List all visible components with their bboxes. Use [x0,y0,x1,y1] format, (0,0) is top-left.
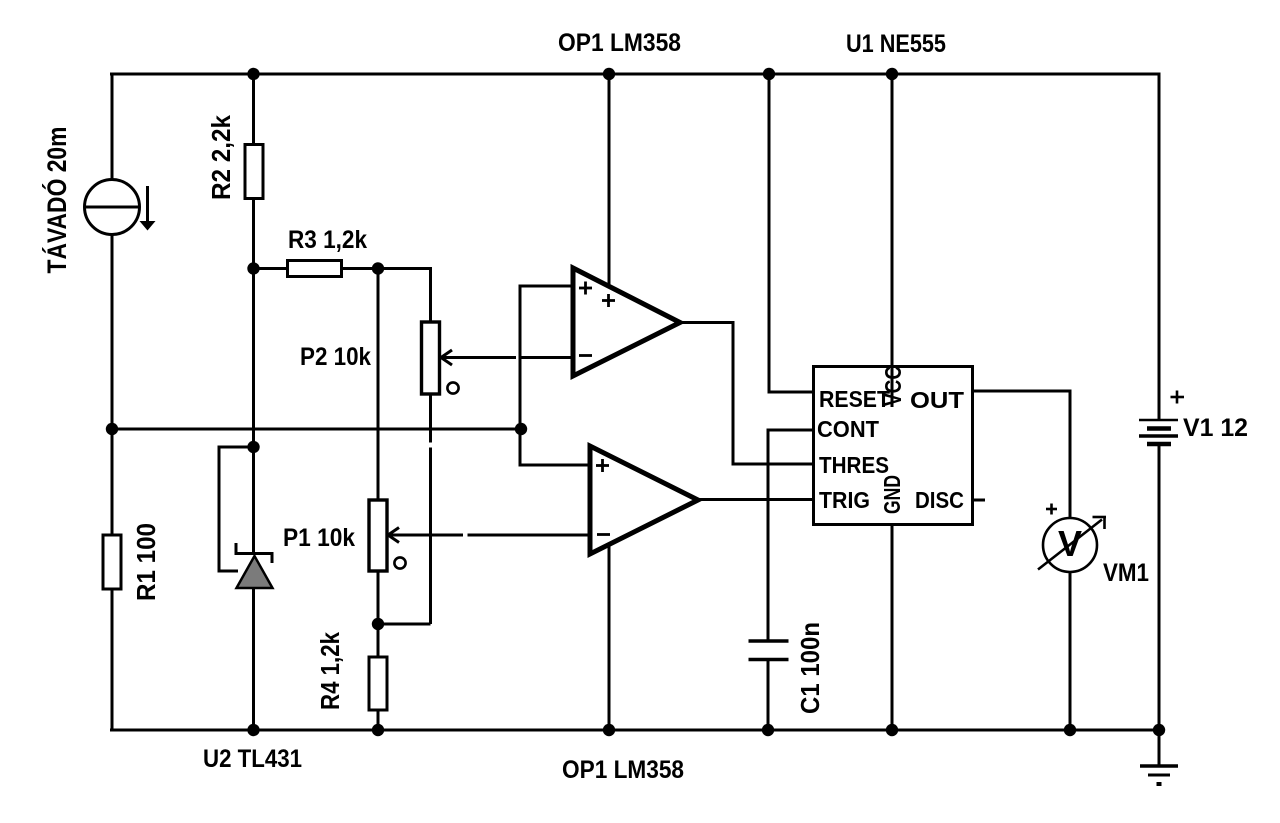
TL431 U2 reference wire [219,447,254,571]
node R3 P2 P1 [372,262,384,274]
node opamp supply bottom rail [603,724,615,736]
svg-text:C1 100n: C1 100n [795,622,825,714]
wire op-amp1 noninverting input [520,286,590,465]
op-amp1 minus input marker [579,354,592,357]
svg-text:GND: GND [879,475,905,514]
wire P1 bottom [377,571,380,657]
node C1 bottom rail [762,724,774,736]
ground symbol [1140,730,1178,784]
wire OUT pin to voltmeter [972,391,1070,518]
wire node to P2 top [378,269,431,323]
potentiometer P1 [369,500,387,571]
node mid rail right [515,423,527,435]
wire R1 top is left rail middle; resistor R1 [103,535,121,589]
node GND bottom rail [886,724,898,736]
wire right rail lower [1158,445,1161,730]
IC U1 NE555 box [814,367,973,525]
wire TL431 anode to bottom rail [252,588,255,732]
wire P2 bottom lower segment [429,448,432,625]
wire R2 top [252,73,255,146]
node ground bottom rail [1153,724,1165,736]
svg-text:OUT: OUT [910,387,964,413]
svg-text:R3 1,2k: R3 1,2k [288,226,367,254]
wire bottom rail [110,729,1160,732]
voltmeter VM1 [1038,504,1106,573]
wire DISC stub [972,499,985,502]
wire R4 bottom [377,710,380,732]
op-amp1 supply plus marker [602,294,615,307]
node R2 R3 [247,262,259,274]
wire VCC pin [891,73,894,408]
resistor R4 [369,657,387,710]
wire P1 top [377,269,380,501]
node TL431 bottom rail [247,724,259,736]
wire op-amp2 V- supply [608,545,611,732]
capacitor C1 top plate [749,639,789,643]
wire mid rail [112,428,521,431]
P2 terminal circle o [447,382,458,393]
current source TÁVADÓ 20m [85,180,156,235]
wire C1 bottom [767,660,770,731]
wire op-amp1 output to THRES [680,323,813,465]
node P1 bottom [372,618,384,630]
svg-text:CONT: CONT [817,416,879,442]
wire VM1 bottom [1069,572,1072,730]
op-amp1 plus input marker [579,282,592,295]
node R2 top rail [247,68,259,80]
resistor R3 [288,261,342,277]
wire P1 wiper to op-amp2 inverting input [468,534,591,537]
op-amp U1A OP1 triangle [573,268,680,376]
svg-text:TRIG: TRIG [819,487,870,513]
wire op-amp1 V+ supply [608,73,611,288]
wire GND pin [891,524,894,730]
svg-text:TÁVADÓ 20m: TÁVADÓ 20m [41,127,72,274]
op-amp U1B OP1 triangle [590,446,698,554]
svg-text:P1 10k: P1 10k [283,524,355,552]
resistor R2 [245,145,263,199]
P2 wiper arrow [441,350,516,365]
TL431 U2 body [237,556,273,588]
capacitor C1 bottom plate [749,658,789,662]
wire RESET pin [769,73,813,393]
svg-text:R2 2,2k: R2 2,2k [206,115,236,200]
wire left rail upper [111,73,114,181]
svg-text:OP1 LM358: OP1 LM358 [558,29,681,57]
svg-text:V: V [1058,523,1082,564]
wire P2 wiper to op-amp1 inverting input [521,356,573,359]
svg-text:R1 100: R1 100 [131,523,161,601]
battery V1 plates [1139,420,1178,444]
op-amp2 plus input marker [596,459,609,472]
wire op-amp2 output to TRIG [698,498,813,501]
svg-text:VCC: VCC [880,366,906,406]
node VCC top rail [886,68,898,80]
wire R3 right [341,267,378,270]
wire R3 left [254,267,289,270]
wire P2 bottom to P1 bottom node [378,623,431,626]
svg-text:U1 NE555: U1 NE555 [846,30,946,58]
wire top rail [110,73,1160,76]
node opamp supply top rail [603,68,615,80]
P1 terminal circle o [394,557,405,568]
wire right rail upper [1158,73,1161,420]
node RESET top rail [763,68,775,80]
svg-text:DISC: DISC [915,487,964,513]
node TL431 ref [247,441,259,453]
op-amp2 minus input marker [597,533,610,536]
wire left rail lower [111,589,114,732]
wire left rail middle [111,234,114,536]
svg-text:U2 TL431: U2 TL431 [203,745,302,773]
node mid rail left [106,423,118,435]
node R4 bottom rail [372,724,384,736]
node VM1 bottom rail [1064,724,1076,736]
svg-text:P2 10k: P2 10k [300,343,371,371]
svg-text:R4 1,2k: R4 1,2k [315,632,345,710]
battery plus marker [1171,391,1185,404]
potentiometer P2 [422,322,440,394]
svg-text:THRES: THRES [819,452,889,478]
svg-text:V1 12: V1 12 [1183,414,1248,442]
wire CONT pin to C1 [768,430,813,641]
wire P2 bottom upper segment [429,394,432,443]
svg-text:VM1: VM1 [1103,559,1149,587]
TL431 U2 cathode bar [236,543,272,563]
wire R2 bottom to TL431 [252,198,255,553]
svg-text:OP1 LM358: OP1 LM358 [562,756,684,784]
P1 wiper arrow [388,528,463,543]
